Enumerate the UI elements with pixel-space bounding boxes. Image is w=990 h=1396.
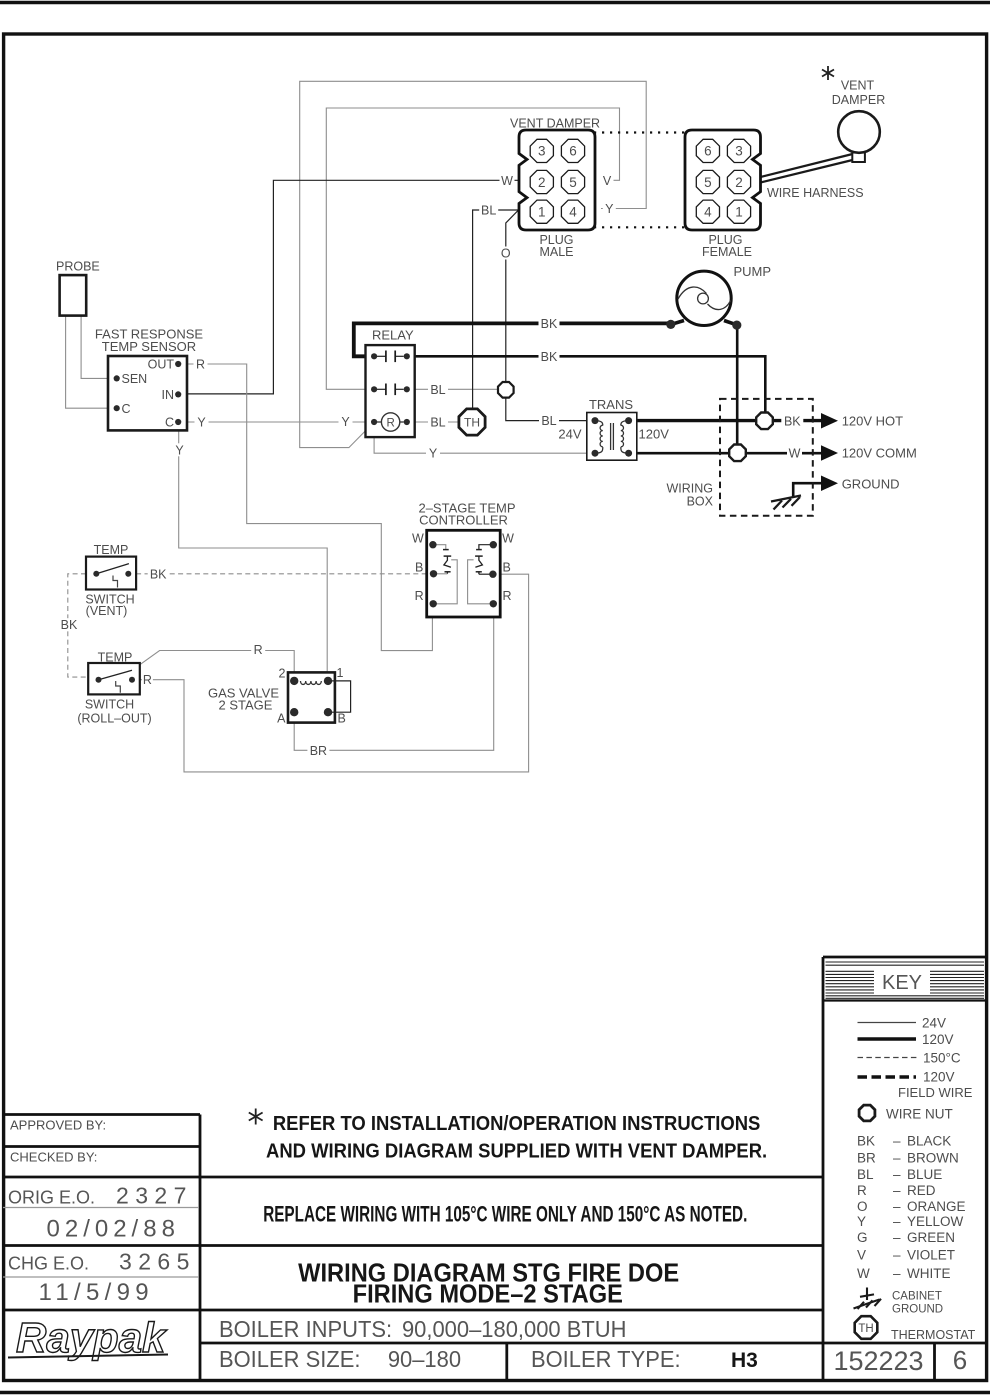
svg-text:4: 4 — [569, 205, 577, 220]
svg-text:MALE: MALE — [539, 245, 573, 259]
svg-text:FIELD WIRE: FIELD WIRE — [898, 1085, 973, 1100]
gas valve 2 stage — [208, 666, 351, 726]
svg-text:3265: 3265 — [119, 1249, 196, 1275]
svg-text:6: 6 — [953, 1345, 967, 1375]
svg-text:PUMP: PUMP — [734, 264, 772, 279]
key sample: 24V wire — [858, 1016, 947, 1031]
svg-text:2: 2 — [538, 175, 546, 190]
svg-text:W: W — [502, 532, 514, 546]
svg-text:120V: 120V — [639, 427, 670, 442]
key symbol: cabinet ground — [854, 1288, 882, 1310]
wire net 120V hot: transformer to arrow — [630, 419, 821, 422]
wire net BK 150C dashed: vent switch to controller B — [136, 573, 427, 575]
label BR — [307, 744, 329, 758]
svg-text:R: R — [857, 1183, 867, 1198]
label Y (relay in) — [339, 415, 353, 429]
svg-text:FEMALE: FEMALE — [702, 245, 752, 259]
svg-text:BK: BK — [541, 350, 558, 364]
svg-text:120V COMM: 120V COMM — [842, 446, 917, 461]
svg-text:(ROLL–OUT): (ROLL–OUT) — [77, 712, 151, 726]
boiler size field — [219, 1347, 461, 1373]
checked by field — [10, 1150, 97, 1165]
svg-text:Y: Y — [857, 1214, 866, 1229]
svg-text:120V HOT: 120V HOT — [842, 414, 903, 429]
svg-text:C: C — [165, 415, 174, 429]
svg-text:W: W — [412, 532, 424, 546]
svg-text:5: 5 — [704, 175, 712, 190]
svg-text:GROUND: GROUND — [892, 1304, 943, 1316]
svg-text:1: 1 — [337, 666, 344, 680]
svg-text:CABINET: CABINET — [892, 1291, 942, 1303]
label O — [499, 247, 512, 261]
label W (plug) — [500, 174, 515, 188]
boiler type field — [531, 1347, 758, 1373]
svg-text:4: 4 — [704, 205, 712, 220]
wire net Y: sensor C to relay coil — [178, 421, 374, 423]
svg-text:ORIG E.O.: ORIG E.O. — [8, 1188, 95, 1208]
svg-text:O: O — [501, 247, 511, 261]
wire net V: plug male pin V to relay contact 2 — [326, 108, 619, 389]
svg-text:YELLOW: YELLOW — [907, 1214, 964, 1229]
svg-text:TRANS: TRANS — [589, 397, 633, 412]
svg-text:RELAY: RELAY — [372, 328, 414, 343]
svg-text:R: R — [503, 589, 512, 603]
orig E.O. 2327 field — [8, 1183, 193, 1209]
svg-text:Y: Y — [197, 416, 206, 430]
svg-text:CONTROLLER: CONTROLLER — [419, 513, 508, 528]
approved by field — [10, 1118, 106, 1133]
svg-text:RED: RED — [907, 1183, 936, 1198]
svg-text:BOILER INPUTS:: BOILER INPUTS: — [219, 1317, 392, 1343]
svg-text:BK: BK — [150, 567, 167, 581]
svg-text:BR: BR — [310, 744, 327, 758]
svg-text:02/02/88: 02/02/88 — [47, 1216, 180, 1243]
wiring box (dashed) — [666, 399, 812, 516]
label R (sensor out) — [194, 358, 208, 372]
cabinet ground symbol (wiring box) — [771, 496, 801, 510]
label Y (sensor c) — [195, 416, 209, 430]
arrow GROUND — [821, 476, 899, 492]
svg-text:5: 5 — [569, 175, 577, 190]
svg-text:BL: BL — [857, 1167, 874, 1182]
svg-text:AND WIRING DIAGRAM SUPPLIED WI: AND WIRING DIAGRAM SUPPLIED WITH VENT DA… — [266, 1140, 767, 1163]
key symbol: wire nut — [859, 1105, 953, 1121]
wire net BL: relay coil to thermostat TH — [407, 421, 459, 423]
label BK (pump line) — [539, 317, 560, 331]
svg-text:–: – — [893, 1214, 901, 1229]
svg-text:W: W — [789, 446, 801, 460]
svg-text:6: 6 — [569, 144, 577, 159]
svg-text:120V: 120V — [923, 1070, 955, 1085]
wire net R: sensor OUT to controller left R — [178, 364, 432, 651]
wire nut on 120V hot — [756, 413, 773, 430]
temp switch (roll-out) S2 — [77, 651, 151, 726]
svg-text:G: G — [857, 1230, 868, 1245]
svg-text:Y: Y — [429, 447, 438, 461]
label BL (relay 2) — [428, 383, 448, 397]
asterisk note marker — [249, 1109, 263, 1125]
wire net BR: gas valve A to controller right R — [294, 604, 494, 751]
svg-text:BL: BL — [430, 383, 445, 397]
wire net W 120V comm: transformer to arrow — [629, 452, 821, 455]
svg-text:BK: BK — [784, 414, 801, 428]
wire net BK 150C dashed: vent switch to roll-out switch — [68, 574, 88, 677]
temp switch (vent) S1 — [85, 543, 136, 618]
arrow 120V HOT — [821, 413, 903, 429]
svg-text:Y: Y — [175, 443, 184, 457]
svg-text:FIRING MODE–2 STAGE: FIRING MODE–2 STAGE — [353, 1281, 623, 1309]
svg-text:–: – — [893, 1266, 901, 1281]
svg-text:DAMPER: DAMPER — [832, 93, 885, 107]
svg-text:BK: BK — [857, 1133, 875, 1148]
wire net BK 120V: relay contact 1 to 120V hot — [407, 356, 766, 412]
label W (120v comm) — [787, 446, 802, 460]
svg-text:B: B — [338, 712, 346, 726]
svg-text:BK: BK — [541, 317, 558, 331]
svg-text:W: W — [501, 174, 513, 188]
svg-text:3: 3 — [735, 144, 743, 159]
svg-text:V: V — [857, 1248, 866, 1263]
wire net BL: plug male pin 1 to thermostat TH — [473, 210, 519, 408]
svg-text:ORANGE: ORANGE — [907, 1199, 966, 1214]
svg-text:SEN: SEN — [122, 372, 148, 386]
svg-text:R: R — [196, 358, 205, 372]
2-stage temp controller — [412, 501, 516, 618]
svg-text:–: – — [893, 1183, 901, 1198]
svg-text:GREEN: GREEN — [907, 1230, 955, 1245]
svg-text:VENT: VENT — [841, 79, 875, 93]
relay K1 — [366, 328, 415, 438]
svg-text:W: W — [857, 1266, 870, 1281]
label BK (120v hot) — [781, 414, 803, 428]
key sample: 120V wire — [858, 1032, 954, 1047]
Raypak logo — [8, 1314, 168, 1361]
svg-text:VIOLET: VIOLET — [907, 1248, 955, 1263]
svg-text:CHECKED BY:: CHECKED BY: — [10, 1150, 97, 1165]
wire net R: roll-out switch blade to gas valve pin 2 — [132, 651, 294, 681]
svg-text:OUT: OUT — [148, 358, 175, 372]
svg-text:3: 3 — [538, 144, 546, 159]
dotted field connections between plugs — [594, 133, 685, 228]
svg-text:BLACK: BLACK — [907, 1133, 951, 1148]
title: wiring diagram stg fire doe — [298, 1260, 679, 1309]
label BL (plug pin1) — [479, 204, 498, 218]
svg-text:REPLACE WIRING WITH 105°C WIRE: REPLACE WIRING WITH 105°C WIRE ONLY AND … — [263, 1203, 747, 1227]
svg-text:WIRING: WIRING — [666, 482, 713, 496]
svg-text:TEMP: TEMP — [94, 543, 129, 557]
boiler inputs field — [219, 1317, 626, 1343]
svg-text:R: R — [143, 673, 152, 687]
wire net W: plug male pin W to sensor IN — [178, 180, 519, 394]
arrow 120V COMM — [821, 445, 917, 461]
svg-text:BROWN: BROWN — [907, 1151, 959, 1166]
svg-text:BL: BL — [430, 416, 445, 430]
svg-text:TH: TH — [464, 416, 480, 430]
svg-text:24V: 24V — [558, 427, 581, 442]
svg-text:R: R — [386, 418, 394, 430]
svg-text:KEY: KEY — [882, 972, 922, 994]
svg-text:BL: BL — [481, 204, 496, 218]
svg-text:TEMP: TEMP — [98, 651, 133, 665]
wire net ground — [793, 483, 821, 497]
note: replace wiring with 105C wire — [263, 1203, 747, 1227]
svg-text:–: – — [893, 1230, 901, 1245]
svg-text:BOILER TYPE:: BOILER TYPE: — [531, 1347, 681, 1373]
key symbol: thermostat — [855, 1316, 976, 1342]
svg-text:PROBE: PROBE — [56, 260, 100, 274]
svg-text:CHG E.O.: CHG E.O. — [8, 1254, 89, 1274]
svg-text:IN: IN — [162, 388, 175, 402]
svg-text:O: O — [857, 1199, 868, 1214]
date 02/02/88 — [47, 1216, 180, 1243]
svg-text:WIRE HARNESS: WIRE HARNESS — [767, 186, 864, 200]
svg-text:REFER TO INSTALLATION/OPERATIO: REFER TO INSTALLATION/OPERATION INSTRUCT… — [273, 1112, 761, 1135]
svg-text:90–180: 90–180 — [388, 1347, 461, 1373]
svg-text:WHITE: WHITE — [907, 1266, 951, 1281]
svg-text:BR: BR — [857, 1151, 876, 1166]
key sample: 120V field wire — [858, 1070, 973, 1101]
wire net BK 120V: relay contact 1 to pump — [354, 323, 671, 356]
svg-text:Y: Y — [341, 415, 350, 429]
plug male connector — [510, 117, 600, 260]
wire: probe leads to sensor — [66, 316, 117, 409]
svg-text:2: 2 — [279, 667, 286, 681]
drawing number 152223 — [833, 1346, 923, 1376]
svg-text:BK: BK — [61, 618, 78, 632]
revision 6 — [953, 1345, 967, 1375]
svg-text:–: – — [893, 1151, 901, 1166]
svg-text:C: C — [122, 402, 131, 416]
wire nut junction (O/BL) — [498, 382, 514, 398]
thermostat TH — [459, 409, 485, 435]
key title — [882, 972, 922, 994]
label Y (sensor drop) — [173, 443, 187, 457]
chg E.O. 3265 field — [8, 1249, 196, 1275]
svg-text:2: 2 — [735, 175, 743, 190]
label R (gas valve) — [251, 643, 265, 657]
label BK (vent switch) — [148, 567, 169, 581]
label BK (hot line) — [539, 350, 560, 364]
svg-text:THERMOSTAT: THERMOSTAT — [891, 1328, 976, 1342]
svg-text:1: 1 — [538, 205, 546, 220]
svg-text:–: – — [893, 1248, 901, 1263]
label V (plug) — [601, 174, 614, 188]
key box border — [823, 957, 986, 1001]
svg-text:VENT DAMPER: VENT DAMPER — [510, 117, 600, 131]
wire net R: roll-out switch to controller right B — [140, 574, 529, 772]
key sample: 150C wire — [858, 1051, 961, 1066]
svg-text:GROUND: GROUND — [842, 477, 900, 492]
label BL (trans) — [539, 414, 559, 428]
svg-text:2 STAGE: 2 STAGE — [219, 698, 273, 713]
svg-text:BLUE: BLUE — [907, 1167, 942, 1182]
svg-text:TH: TH — [858, 1323, 873, 1335]
svg-text:TEMP SENSOR: TEMP SENSOR — [102, 339, 196, 354]
svg-text:V: V — [603, 174, 612, 188]
svg-text:BL: BL — [541, 414, 556, 428]
svg-text:A: A — [277, 712, 286, 726]
svg-text:BOILER SIZE:: BOILER SIZE: — [219, 1347, 360, 1373]
svg-text:–: – — [893, 1133, 901, 1148]
svg-text:H3: H3 — [731, 1349, 758, 1372]
svg-text:1: 1 — [735, 205, 743, 220]
svg-text:–: – — [893, 1199, 901, 1214]
svg-text:WIRE NUT: WIRE NUT — [886, 1107, 953, 1122]
wire net BL: relay contact 2 to wire nut — [407, 388, 498, 390]
key header hatching — [826, 962, 985, 998]
svg-text:150°C: 150°C — [923, 1051, 961, 1066]
label Y (plug) — [603, 202, 616, 216]
wire net 120V: pump to 120V comm — [736, 325, 739, 444]
svg-text:2327: 2327 — [116, 1183, 193, 1209]
svg-text:B: B — [503, 561, 511, 575]
svg-text:–: – — [893, 1167, 901, 1182]
transformer TRANS — [558, 397, 669, 460]
fast response temp sensor U1 — [95, 327, 203, 431]
probe — [56, 260, 100, 316]
wire net Y: plug male pin Y to relay coil terminal — [300, 81, 647, 447]
wire harness (double line) — [761, 154, 864, 200]
svg-text:B: B — [415, 561, 423, 575]
svg-text:R: R — [254, 643, 263, 657]
pump M1 — [666, 264, 771, 330]
wire net O: plug male to wire nut to transformer 24V — [506, 209, 595, 421]
svg-text:90,000–180,000 BTUH: 90,000–180,000 BTUH — [402, 1317, 627, 1343]
svg-text:APPROVED BY:: APPROVED BY: — [10, 1118, 106, 1133]
wire net Y: relay coil to transformer 24V — [374, 422, 595, 453]
svg-text:11/5/99: 11/5/99 — [39, 1279, 154, 1306]
plug female connector — [685, 130, 761, 259]
label BK (dashed drop) — [59, 618, 79, 632]
wire nut on 120V comm — [729, 445, 746, 462]
svg-text:152223: 152223 — [833, 1346, 923, 1376]
vent damper actuator — [822, 66, 885, 162]
wire net Y: sensor C to gas valve pin 1 — [179, 423, 328, 681]
key color codes — [857, 1133, 966, 1281]
svg-text:BOX: BOX — [687, 495, 714, 509]
label BL (relay 3) — [428, 416, 448, 430]
svg-text:24V: 24V — [922, 1016, 946, 1031]
date 11/5/99 — [39, 1279, 154, 1306]
label R (roll-out) — [142, 673, 153, 687]
svg-text:R: R — [415, 589, 424, 603]
svg-text:120V: 120V — [922, 1032, 954, 1047]
svg-text:(VENT): (VENT) — [86, 604, 128, 618]
svg-text:6: 6 — [704, 144, 712, 159]
svg-text:SWITCH: SWITCH — [85, 698, 134, 712]
note: refer to installation/operation instructions — [266, 1112, 767, 1163]
svg-text:Y: Y — [605, 202, 614, 216]
label Y (trans 24v) — [426, 447, 440, 461]
